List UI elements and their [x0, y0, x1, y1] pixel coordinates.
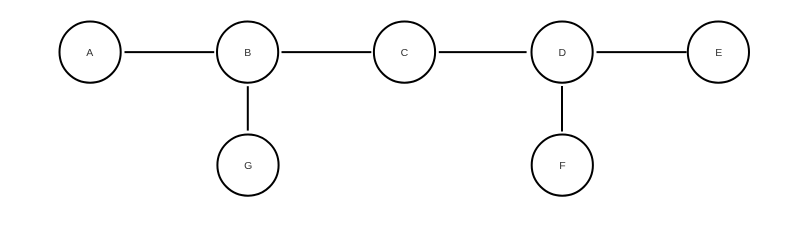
node B: [217, 21, 278, 82]
wire B-G: [247, 86, 249, 130]
node A: [60, 21, 121, 82]
node C: [374, 21, 435, 82]
svg-text:E: E: [715, 47, 722, 59]
svg-text:G: G: [244, 160, 252, 172]
wire D-E: [597, 51, 687, 53]
wire C-D: [439, 51, 527, 53]
node G: [217, 135, 278, 196]
wire A-B: [125, 51, 215, 53]
svg-text:B: B: [244, 47, 251, 59]
node D: [532, 21, 593, 82]
svg-text:C: C: [401, 47, 409, 59]
node F: [532, 135, 593, 196]
wire B-C: [282, 51, 372, 53]
svg-text:F: F: [559, 160, 565, 172]
wire D-F: [561, 86, 563, 132]
svg-text:A: A: [86, 47, 93, 59]
node E: [688, 21, 749, 82]
svg-text:D: D: [559, 47, 567, 59]
